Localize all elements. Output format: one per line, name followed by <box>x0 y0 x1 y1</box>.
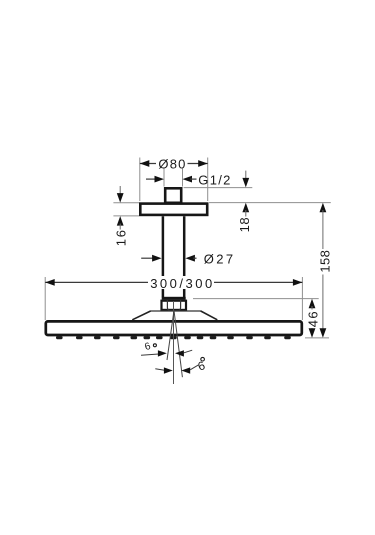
dim 18 <box>242 171 249 217</box>
dim line O80 <box>140 160 208 167</box>
lower 6-deg leader right <box>190 365 198 370</box>
ref line flange-bottom left (16 bottom) <box>113 215 139 217</box>
ext line left of O80 dim <box>139 158 141 202</box>
ref line stub-top right (18 top) <box>184 187 253 189</box>
lower 6-deg arrow left-pointing <box>181 367 190 373</box>
center axis line <box>173 301 175 384</box>
lower 6-deg arrow right-pointing <box>164 367 173 373</box>
upper 6-deg arrow right-pointing <box>158 350 167 356</box>
ext line left of 300/300 <box>44 277 46 320</box>
ref line cone-top right (46 top) <box>193 298 319 300</box>
ceiling flange <box>140 204 207 215</box>
svg-text:16: 16 <box>113 228 128 246</box>
spray line left <box>167 311 174 361</box>
ext line right of G1/2 (stub right corner up) <box>182 169 184 187</box>
shower plate <box>46 321 302 335</box>
pipe left wall <box>162 216 165 297</box>
dim 46 <box>309 299 316 338</box>
dim O27 <box>141 255 196 262</box>
dim 158 <box>320 203 327 338</box>
svg-text:46: 46 <box>306 310 321 327</box>
pipe end cap <box>162 297 186 300</box>
connector nut <box>162 301 187 310</box>
label 300/300 <box>149 276 214 289</box>
svg-text:300/300: 300/300 <box>150 276 215 291</box>
pipe right wall <box>183 216 186 297</box>
upper 6-deg leader left <box>141 354 159 355</box>
cone top line <box>150 310 201 312</box>
cone left slope <box>132 311 150 320</box>
svg-text:158: 158 <box>317 250 332 273</box>
dim 16 <box>117 186 124 230</box>
ball joint insert <box>167 300 180 311</box>
thread stub <box>165 188 181 203</box>
ref line flange-top right (long, 18 bottom / 158 top) <box>209 202 331 204</box>
svg-text:G1/2: G1/2 <box>198 173 231 188</box>
dim G1/2 arrows <box>146 176 197 183</box>
upper 6-deg arrow left-pointing <box>175 350 184 356</box>
nozzles row <box>56 336 291 339</box>
dim line 300/300 <box>45 279 302 286</box>
upper 6-deg leader right <box>184 350 192 353</box>
ext line left of G1/2 (stub left corner up) <box>163 169 165 187</box>
ref line flange-top left (16 top) <box>113 202 139 204</box>
spray line right <box>174 311 182 378</box>
cone right slope <box>201 311 218 320</box>
ref line plate-bottom right (46/158 bottom) <box>305 337 329 339</box>
ext line right of 300/300 <box>301 277 303 320</box>
ext line right of O80 dim <box>207 158 209 202</box>
svg-text:Ø27: Ø27 <box>204 251 236 266</box>
svg-text:18: 18 <box>237 217 252 233</box>
lower 6-deg leader left <box>155 369 164 371</box>
